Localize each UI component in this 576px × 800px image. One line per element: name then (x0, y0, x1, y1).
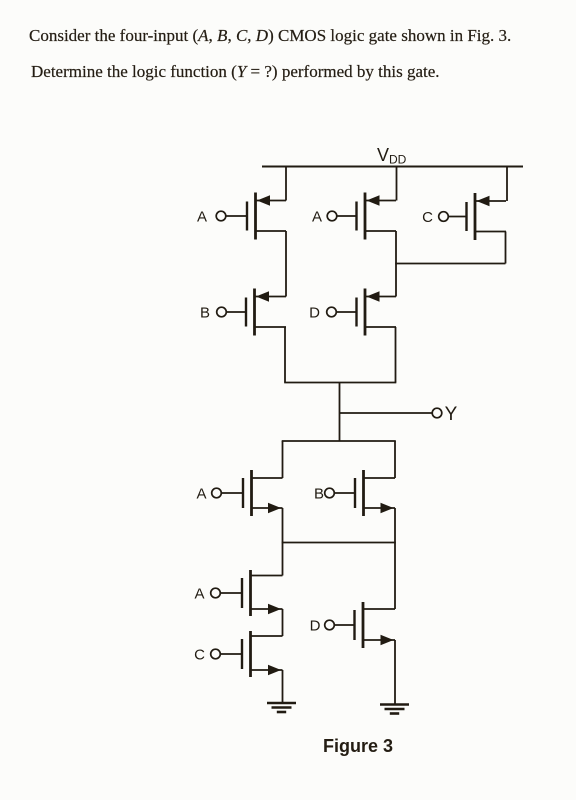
input terminal of N3 (211, 588, 221, 598)
input terminal of M4 (217, 307, 227, 317)
svg-text:B: B (200, 304, 210, 321)
ground symbol left (267, 703, 296, 712)
wire NMOS mid bus (282, 542, 396, 544)
transistor M4 (PMOS) (226, 289, 286, 336)
transistor M2 (PMOS) (337, 193, 396, 240)
svg-text:Y: Y (445, 404, 458, 425)
wire N4 source to ground (282, 670, 284, 703)
transistor N5 (NMOS) (334, 602, 395, 648)
svg-text:VDD: VDD (377, 145, 407, 167)
input terminal of N5 (325, 620, 335, 630)
wire output stem from PMOS bus to NMOS bus (339, 383, 341, 442)
wire NMOS bus to N2 drain (394, 441, 396, 478)
input terminal of M3 (439, 212, 449, 222)
svg-text:D: D (310, 617, 321, 634)
svg-text:B: B (314, 485, 324, 502)
svg-text:A: A (312, 208, 322, 225)
wire M2 drain to M5 source (395, 231, 397, 297)
transistor M1 (PMOS) (226, 193, 286, 240)
wire N5 source to ground (394, 640, 396, 705)
wire NMOS top bus (282, 440, 396, 442)
wire NMOS bus to N1 drain (282, 441, 284, 478)
wire N1 source down to mid node (282, 508, 284, 543)
wire VDD to M1 source (285, 167, 287, 201)
input terminal of M1 (216, 211, 226, 221)
transistor N1 (NMOS) (221, 470, 282, 516)
input terminal of M2 (327, 211, 337, 221)
wire M4 drain down to PMOS output bus (284, 327, 286, 383)
wire output branch to Y (340, 412, 433, 414)
ground symbol right (380, 705, 409, 714)
problem statement line 2 (31, 62, 440, 82)
input terminal of M5 (327, 307, 337, 317)
svg-text:A: A (194, 585, 204, 602)
wire N3 source to N4 drain (282, 609, 284, 636)
input terminal of N2 (325, 488, 335, 498)
wire mid bus to N5 drain (394, 543, 396, 610)
transistor N3 (NMOS) (220, 570, 282, 616)
wire M5 drain down to PMOS output bus (395, 327, 397, 383)
wire VDD to M2 source (396, 167, 398, 201)
svg-text:D: D (309, 304, 320, 321)
svg-text:A: A (196, 485, 206, 502)
transistor M3 (PMOS) (448, 193, 506, 240)
transistor M5 (PMOS) (336, 289, 396, 336)
svg-text:A: A (197, 208, 207, 225)
wire VDD to M3 source (506, 167, 508, 202)
wire VDD rail (262, 166, 523, 168)
transistor N4 (NMOS) (220, 631, 282, 677)
problem statement line 1 (29, 26, 511, 46)
svg-text:C: C (422, 209, 433, 226)
output terminal Y (432, 408, 442, 418)
wire mid bus to N3 drain (282, 543, 284, 576)
wire M3 drain down (505, 232, 507, 264)
wire M3 drain across to M2 drain node (395, 263, 505, 265)
input terminal of N1 (212, 488, 222, 498)
transistor N2 (NMOS) (334, 470, 395, 516)
caption Figure 3 (323, 736, 393, 757)
wire PMOS output bus (284, 382, 396, 384)
wire N2 source down to mid node (394, 508, 396, 543)
svg-text:C: C (194, 646, 205, 663)
wire M1 drain to M4 source (285, 231, 287, 297)
input terminal of N4 (211, 649, 221, 659)
